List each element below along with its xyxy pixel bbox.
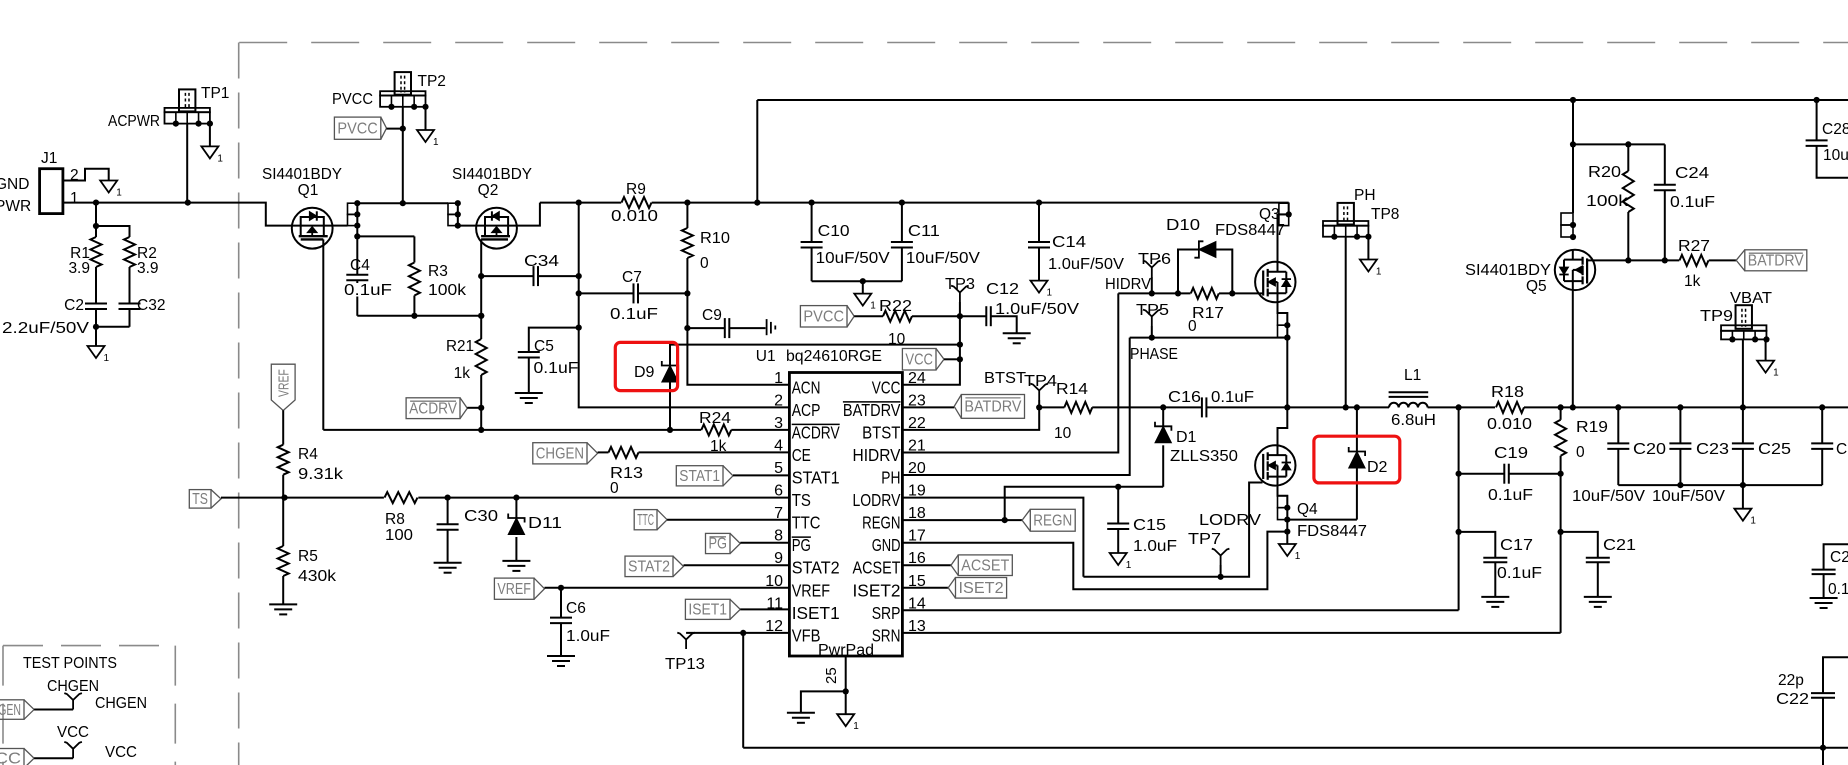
test point VCC legend	[64, 742, 82, 758]
capacitor C4	[346, 274, 368, 276]
svg-text:ISET1: ISET1	[792, 603, 840, 623]
svg-text:CHGEN: CHGEN	[0, 702, 21, 719]
svg-text:C34: C34	[524, 253, 559, 270]
svg-text:CE: CE	[792, 445, 811, 465]
net flag ISET2	[902, 587, 948, 589]
dashed page border	[239, 42, 1848, 44]
bracket Q1 drain	[348, 203, 358, 214]
svg-text:TP3: TP3	[945, 276, 975, 293]
capacitor C22	[1823, 657, 1848, 693]
net flag ISET1	[685, 599, 730, 619]
svg-text:TP8: TP8	[1371, 206, 1399, 223]
net flag VREF vertical	[271, 364, 295, 410]
wire TP8 to phase node	[1345, 237, 1347, 408]
svg-text:R17: R17	[1192, 305, 1224, 322]
svg-text:C24: C24	[1675, 165, 1709, 182]
ground below C12	[1003, 332, 1031, 334]
svg-text:SI4401BDY: SI4401BDY	[262, 166, 342, 183]
svg-text:TP2: TP2	[418, 73, 446, 90]
wire VFB net	[686, 632, 789, 634]
resistor R10	[682, 228, 693, 258]
svg-text:10uF/50V: 10uF/50V	[906, 250, 981, 267]
svg-text:BATDRV: BATDRV	[1748, 253, 1804, 270]
capacitor C10	[811, 203, 813, 242]
transistor Q2 SI4401BDY	[476, 208, 517, 249]
resistor R21	[476, 339, 487, 375]
ground below C2	[88, 346, 105, 358]
capacitor C17	[1459, 532, 1496, 558]
capacitor C6	[560, 588, 562, 618]
test point TP3	[951, 286, 969, 302]
svg-text:PH: PH	[1354, 187, 1376, 204]
svg-text:bq24610RGE: bq24610RGE	[786, 348, 882, 365]
test point CHGEN legend	[64, 693, 82, 709]
wire Q2 gate down	[480, 239, 482, 339]
net flag BATDRV at pin 23	[902, 406, 954, 408]
svg-text:1k: 1k	[454, 365, 471, 382]
resistor R24	[701, 424, 731, 435]
svg-text:STAT2: STAT2	[792, 558, 840, 578]
net flag BATDRV right	[1745, 250, 1807, 271]
capacitor C29 at right edge	[1824, 544, 1848, 569]
svg-text:10u: 10u	[1823, 147, 1848, 164]
svg-text:1: 1	[774, 370, 783, 387]
svg-text:C23: C23	[1696, 441, 1729, 458]
resistor R13	[598, 451, 609, 453]
capacitor C25	[1742, 407, 1744, 443]
svg-text:HIDRV: HIDRV	[1105, 276, 1152, 293]
wire C10 C11 ground bus	[812, 280, 902, 282]
net flag ACSET	[902, 564, 951, 566]
svg-text:1: 1	[1126, 560, 1132, 571]
svg-text:TP13: TP13	[665, 656, 705, 673]
wire C5 top	[529, 328, 579, 352]
wire D9 top to VCC node	[669, 366, 671, 430]
resistor R22	[854, 315, 883, 317]
svg-text:BATDRV: BATDRV	[964, 399, 1021, 416]
bracket Q2 source	[448, 203, 458, 214]
wire CHGEN legend	[34, 709, 73, 711]
svg-text:PG: PG	[792, 535, 811, 555]
svg-text:R24: R24	[699, 410, 731, 427]
diode D11	[515, 498, 517, 518]
svg-text:TP7: TP7	[1188, 531, 1221, 548]
wire SRN pin13	[902, 632, 1560, 634]
svg-text:0.1uF: 0.1uF	[1488, 487, 1533, 504]
svg-text:VREF: VREF	[497, 581, 531, 598]
svg-text:0: 0	[1576, 444, 1585, 461]
net flag PVCC near R22	[800, 306, 847, 327]
svg-text:R9: R9	[626, 181, 646, 198]
test point TP6	[1143, 261, 1161, 277]
svg-text:BTST: BTST	[862, 422, 901, 442]
ground below output caps	[1742, 485, 1744, 509]
svg-text:0.1uF: 0.1uF	[610, 306, 658, 323]
diode D1 ZLLS350	[1162, 407, 1164, 426]
node ACPWR junction R1	[93, 200, 99, 206]
capacitor C15	[1117, 487, 1119, 524]
svg-text:0.1uF: 0.1uF	[1211, 389, 1254, 406]
wire Q5 source down to VBAT	[1572, 290, 1574, 407]
svg-text:R21: R21	[446, 338, 474, 355]
test point TP7	[1212, 549, 1230, 565]
resistor R2	[124, 237, 135, 267]
net flag STAT2	[625, 556, 673, 577]
svg-text:0.1uF: 0.1uF	[1497, 565, 1542, 582]
svg-text:ISET1: ISET1	[688, 602, 727, 619]
net flag STAT1	[676, 466, 723, 486]
resistor R1	[91, 237, 102, 267]
capacitor C26	[1821, 407, 1823, 443]
diode D10	[1178, 250, 1199, 294]
svg-text:1: 1	[1295, 551, 1301, 562]
ground PwrPad arrow	[837, 714, 854, 726]
svg-text:FDS8447: FDS8447	[1215, 222, 1285, 239]
svg-text:R19: R19	[1576, 419, 1608, 436]
svg-text:ACP: ACP	[792, 400, 821, 420]
wire REGN net	[1005, 487, 1163, 520]
net flag ACDRV	[406, 398, 460, 419]
wire LODRV pin19	[902, 498, 1083, 577]
test point TP1 header	[179, 89, 195, 111]
svg-text:ACDRV: ACDRV	[409, 400, 457, 417]
ground TP1	[201, 146, 218, 158]
net flag TS	[189, 490, 211, 509]
net flag TTC	[634, 510, 657, 530]
capacitor C7	[579, 292, 634, 294]
svg-text:ISET2: ISET2	[853, 580, 901, 600]
svg-text:10: 10	[1054, 425, 1072, 442]
svg-text:SI4401BDY: SI4401BDY	[1465, 262, 1551, 279]
svg-text:C9: C9	[702, 307, 722, 324]
svg-text:1.0uF/50V: 1.0uF/50V	[1048, 256, 1125, 273]
svg-text:C20: C20	[1633, 441, 1666, 458]
svg-text:D9: D9	[634, 364, 655, 381]
ground PwrPad earth	[787, 712, 815, 714]
svg-text:CHGEN: CHGEN	[47, 678, 99, 695]
svg-text:1.0uF: 1.0uF	[566, 628, 610, 645]
node PVCC flag junction	[400, 126, 406, 132]
svg-text:0.010: 0.010	[1487, 416, 1532, 433]
net flag CHGEN legend	[0, 700, 24, 720]
svg-text:C17: C17	[1500, 537, 1533, 554]
ground below C29	[1810, 597, 1838, 599]
svg-text:U1: U1	[756, 348, 776, 365]
ground below C5	[515, 392, 543, 394]
resistor R18	[1459, 406, 1495, 408]
ground below C15	[1110, 553, 1127, 565]
svg-text:0: 0	[700, 255, 709, 272]
svg-text:ACN: ACN	[792, 377, 821, 397]
svg-text:PWR: PWR	[0, 198, 31, 215]
resistor R4	[278, 445, 289, 475]
wire VREF to pin 10	[545, 587, 790, 589]
wire R1/R2 branch	[95, 203, 97, 237]
svg-text:GND: GND	[872, 535, 901, 555]
transistor Q4 FDS8447	[1255, 445, 1295, 485]
svg-text:C15: C15	[1133, 517, 1166, 534]
wire main rail to R9	[540, 202, 621, 204]
wire Q5 drain from feed	[1572, 100, 1574, 213]
inductor L1	[1287, 406, 1389, 408]
capacitor C5	[518, 351, 540, 353]
ground TP2	[417, 130, 434, 142]
wire R1 to C2	[95, 267, 97, 304]
wire C2/C32 common to ground	[95, 309, 97, 346]
svg-text:0.1uF: 0.1uF	[1670, 194, 1715, 211]
wire battery feed top	[757, 99, 1848, 101]
svg-text:LODRV: LODRV	[1199, 512, 1262, 529]
net flag CHGEN	[533, 443, 587, 464]
svg-text:R27: R27	[1678, 238, 1710, 255]
svg-text:ACDRV: ACDRV	[792, 422, 840, 442]
svg-text:PHASE: PHASE	[1130, 346, 1178, 363]
svg-text:1: 1	[1047, 288, 1053, 299]
svg-text:PH: PH	[881, 468, 900, 488]
bracket Q3 drain	[1278, 203, 1289, 263]
svg-text:1: 1	[116, 188, 122, 199]
transistor Q5 SI4401BDY	[1555, 250, 1595, 290]
wire Q2 drain riser	[517, 203, 540, 226]
capacitor C30	[447, 498, 449, 525]
capacitor C23	[1679, 407, 1681, 443]
wire VREF to R4	[282, 410, 284, 444]
svg-text:R3: R3	[428, 263, 448, 280]
ground below C17	[1481, 596, 1509, 598]
wire R2 to C32	[129, 267, 131, 304]
svg-text:1: 1	[104, 353, 110, 364]
svg-text:1.0uF: 1.0uF	[1133, 538, 1177, 555]
svg-text:R14: R14	[1056, 381, 1088, 398]
svg-text:VCC: VCC	[0, 750, 21, 765]
ground below C10/C11	[854, 294, 871, 306]
svg-text:TP6: TP6	[1138, 251, 1171, 268]
svg-text:100: 100	[385, 527, 413, 544]
wire TP8 ground pin	[1367, 237, 1369, 260]
red highlight box around D2	[1314, 436, 1400, 483]
capacitor C24	[1664, 144, 1666, 184]
wire Q1 source to C4	[356, 226, 358, 275]
capacitor C19	[1459, 473, 1505, 475]
wire D2 to Q4 source	[1287, 519, 1357, 521]
svg-text:REGN: REGN	[1033, 512, 1072, 529]
capacitor C28	[1816, 100, 1818, 140]
resistor R19	[1560, 407, 1562, 419]
test point TP13	[677, 633, 695, 649]
resistor R8	[385, 492, 418, 503]
wire PH pin20 to PHASE	[902, 338, 1129, 475]
capacitor C12	[985, 306, 987, 326]
wire ACDRV net	[323, 429, 701, 431]
svg-text:C7: C7	[622, 269, 642, 286]
connector J1	[40, 169, 63, 214]
svg-text:VREF: VREF	[276, 369, 293, 397]
svg-text:HIDRV: HIDRV	[853, 445, 901, 465]
svg-text:TP5: TP5	[1136, 302, 1169, 319]
red highlight box around D9	[615, 342, 677, 390]
svg-text:R10: R10	[700, 230, 730, 247]
svg-text:VCC: VCC	[872, 377, 901, 397]
svg-text:0.010: 0.010	[611, 208, 658, 225]
wire SRN riser	[1560, 474, 1562, 633]
svg-text:100k: 100k	[1586, 193, 1628, 210]
svg-text:TS: TS	[192, 491, 208, 508]
wire PwrPad to grounds	[801, 691, 846, 712]
test point TP2 header	[395, 72, 411, 95]
wire TP2 ground pin	[425, 107, 427, 130]
svg-text:430k: 430k	[298, 568, 336, 585]
svg-text:C4: C4	[350, 257, 370, 274]
svg-text:STAT2: STAT2	[628, 559, 670, 576]
svg-text:25: 25	[823, 667, 840, 684]
svg-text:C12: C12	[986, 281, 1019, 298]
wire Q1 gate down to ACDRV	[322, 239, 324, 430]
ground below R5	[269, 603, 297, 605]
svg-text:1: 1	[1773, 368, 1779, 379]
svg-text:C22: C22	[1776, 691, 1809, 708]
wire LODRV bottom	[1083, 483, 1262, 577]
capacitor C11	[901, 203, 903, 242]
capacitor C9	[687, 327, 724, 329]
svg-text:TS: TS	[792, 490, 811, 510]
svg-text:TTC: TTC	[637, 512, 654, 529]
net flag PG	[706, 533, 731, 553]
svg-text:6.8uH: 6.8uH	[1391, 412, 1436, 429]
svg-text:SRP: SRP	[872, 603, 901, 623]
wire Q5 gate / R27	[1587, 259, 1679, 261]
svg-text:ISET2: ISET2	[959, 580, 1004, 597]
svg-text:ZLLS350: ZLLS350	[1170, 448, 1238, 465]
wire VCC legend	[34, 757, 73, 759]
wire BTST pin22	[902, 407, 1039, 430]
svg-text:BTST: BTST	[984, 370, 1027, 387]
transistor Q3 FDS8447	[1255, 262, 1295, 302]
svg-text:0.1uF: 0.1uF	[534, 360, 579, 377]
svg-text:C30: C30	[464, 508, 498, 525]
wire R10 to ACN pin1	[687, 258, 789, 385]
wire J1 pin1 ACPWR rail	[63, 203, 293, 226]
svg-text:3.9: 3.9	[137, 260, 159, 277]
ground below Q4	[1279, 544, 1296, 556]
wire PHASE top	[1130, 337, 1288, 339]
svg-text:ACSET: ACSET	[853, 558, 901, 578]
wire GND pin17	[902, 532, 1287, 590]
net flag PVCC	[334, 117, 380, 139]
net flag REGN	[902, 519, 1022, 521]
svg-text:Q5: Q5	[1526, 278, 1547, 295]
wire output cap ground bus	[1618, 484, 1822, 486]
svg-text:PVCC: PVCC	[803, 309, 844, 326]
resistor R3	[409, 263, 420, 296]
svg-text:ACPWR: ACPWR	[108, 113, 160, 130]
svg-text:100k: 100k	[428, 282, 466, 299]
svg-text:STAT1: STAT1	[679, 468, 720, 485]
svg-text:SI4401BDY: SI4401BDY	[452, 166, 532, 183]
svg-text:1: 1	[217, 153, 223, 164]
resistor R14	[1039, 406, 1064, 408]
wire rail to R10	[686, 203, 688, 228]
svg-text:D11: D11	[528, 515, 562, 532]
svg-text:1: 1	[70, 190, 79, 207]
capacitor C34	[481, 275, 533, 277]
svg-text:SRN: SRN	[872, 625, 901, 645]
svg-text:VCC: VCC	[905, 351, 933, 368]
ground TP9	[1757, 361, 1774, 373]
svg-text:10uF/50V: 10uF/50V	[816, 250, 891, 267]
wire VFB to bottom rail	[742, 633, 744, 748]
svg-text:PVCC: PVCC	[337, 120, 377, 137]
svg-text:ACSET: ACSET	[961, 557, 1009, 574]
svg-text:C2: C2	[1830, 549, 1848, 566]
svg-text:C5: C5	[534, 338, 554, 355]
svg-text:C2: C2	[64, 297, 84, 314]
wire C4 R3 bottom bus	[357, 315, 481, 317]
ground below C14	[1031, 281, 1048, 293]
svg-text:C: C	[1836, 441, 1847, 458]
svg-text:VBAT: VBAT	[1730, 290, 1773, 307]
svg-text:Q4: Q4	[1297, 501, 1318, 518]
test points legend box	[3, 645, 175, 647]
svg-text:BATDRV: BATDRV	[843, 400, 901, 420]
wire HIDRV pin21	[902, 293, 1118, 452]
svg-text:1: 1	[433, 137, 439, 148]
svg-text:C28: C28	[1822, 121, 1848, 138]
svg-text:PG: PG	[709, 536, 728, 553]
svg-text:CHGEN: CHGEN	[95, 695, 147, 712]
capacitor C2	[85, 303, 107, 305]
capacitor C32	[119, 303, 141, 305]
svg-text:R18: R18	[1491, 384, 1524, 401]
svg-text:0: 0	[610, 480, 619, 497]
svg-text:C21: C21	[1603, 537, 1636, 554]
svg-text:TP9: TP9	[1700, 308, 1733, 325]
svg-text:10uF/50V: 10uF/50V	[1572, 488, 1646, 505]
svg-text:C10: C10	[818, 223, 850, 240]
pin 25 PwrPad stub	[845, 656, 847, 691]
svg-text:Q1: Q1	[298, 182, 319, 199]
svg-text:TEST POINTS: TEST POINTS	[23, 655, 117, 672]
svg-text:1: 1	[853, 721, 859, 732]
bracket Q5 drain	[1561, 213, 1573, 225]
svg-text:REGN: REGN	[862, 513, 900, 533]
wire TP1 ground pin	[209, 124, 211, 147]
wire TP1 to rail	[186, 124, 188, 203]
test point TP5	[1143, 310, 1161, 326]
svg-text:D1: D1	[1176, 429, 1197, 446]
svg-text:0: 0	[1188, 318, 1197, 335]
wire TS net	[221, 497, 384, 499]
svg-text:C25: C25	[1758, 441, 1791, 458]
svg-text:R22: R22	[879, 298, 912, 315]
svg-text:TP4: TP4	[1024, 373, 1057, 390]
svg-text:TP1: TP1	[201, 85, 229, 102]
op-amp U1 bq24610RGE charger IC body	[789, 373, 902, 657]
net flag VCC	[902, 349, 936, 371]
ground below C21	[1584, 596, 1612, 598]
capacitor C21	[1561, 532, 1598, 558]
wire TP2 to rail	[402, 107, 404, 203]
svg-text:1: 1	[1750, 516, 1756, 527]
svg-text:VCC: VCC	[57, 724, 89, 741]
svg-text:GND: GND	[0, 176, 29, 193]
capacitor C16	[1163, 406, 1202, 408]
svg-text:Q2: Q2	[478, 182, 499, 199]
bracket Q4 source	[1278, 486, 1288, 544]
svg-text:0.1uF: 0.1uF	[344, 282, 392, 299]
svg-text:D2: D2	[1367, 459, 1388, 476]
svg-text:PVCC: PVCC	[332, 91, 373, 108]
resistor R9	[622, 197, 652, 208]
